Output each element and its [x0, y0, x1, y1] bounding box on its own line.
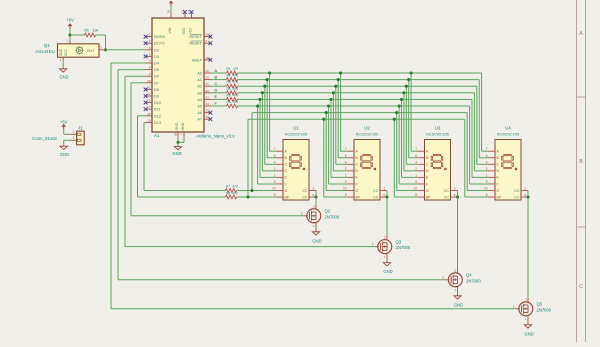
wire A2 pin to R3: [211, 85, 227, 87]
wire R7 to U1 pin G: [237, 190, 277, 192]
svg-text:9: 9: [415, 180, 417, 184]
junction CC net U4: [526, 196, 529, 199]
wire A5 pin to R6: [211, 105, 227, 107]
svg-text:A4: A4: [197, 98, 202, 102]
svg-text:CC: CC: [514, 196, 520, 200]
wire CC pins join U4: [527, 191, 529, 198]
pin 2 GND of Q1: [62, 57, 64, 60]
svg-text:470: 470: [233, 87, 239, 91]
wire bus E drop to U1: [259, 99, 261, 177]
pin 3 CC of U1: [302, 187, 316, 194]
svg-text:470: 470: [233, 93, 239, 97]
svg-text:A6: A6: [197, 111, 202, 115]
wire +5V to Q1 VCC: [69, 29, 71, 41]
wire net D7 to Q2 gate (vertical): [130, 83, 132, 216]
wire net D6 to Q3 gate (horiz run): [125, 246, 375, 248]
svg-text:4: 4: [486, 160, 488, 164]
wire bus C drop to U1: [264, 86, 266, 164]
svg-text:A2: A2: [197, 85, 202, 89]
wire into U1 pin E: [260, 176, 277, 178]
wire into U1 pin A: [270, 150, 277, 152]
svg-text:D12: D12: [154, 114, 161, 118]
wire bus B drop to U1: [266, 80, 268, 158]
pin 5 BP of U2: [345, 193, 361, 199]
junction Q1 OUT / D2 net: [104, 48, 107, 51]
pin 1 D0/RX of A1 (no connect): [144, 33, 166, 40]
svg-text:D1/TX: D1/TX: [154, 42, 165, 46]
wire net D7 to Q2 gate (horiz run): [131, 215, 304, 217]
display U1 KCSC02-105: [272, 126, 316, 200]
power +5V (Arduino VIN): [169, 1, 172, 6]
pin 7 A of U3: [415, 147, 429, 153]
resistor R5 470: [226, 93, 238, 101]
svg-text:GND: GND: [60, 152, 69, 157]
svg-text:D0/RX: D0/RX: [154, 35, 166, 39]
svg-text:Q4: Q4: [466, 273, 472, 278]
wire net D13 to R7 (vertical): [143, 122, 145, 190]
mcu A1 Arduino_Nano_v3.x: [144, 10, 236, 139]
svg-text:C: C: [215, 82, 218, 86]
wire into U4 pin A: [482, 150, 489, 152]
svg-text:24: 24: [206, 102, 210, 106]
svg-text:A7: A7: [197, 118, 202, 122]
svg-text:C: C: [579, 284, 583, 290]
svg-text:D10: D10: [154, 101, 161, 105]
wire R8 to U1 pin BP: [237, 196, 277, 198]
svg-text:CC: CC: [373, 196, 379, 200]
resistor R6 470: [226, 100, 238, 108]
svg-text:G: G: [356, 189, 359, 193]
resistor R5 10k: [84, 28, 98, 37]
junction BP bus at U2: [322, 118, 325, 121]
wire into U3 pin B: [409, 157, 418, 159]
svg-text:27: 27: [187, 10, 191, 14]
wire into U1 pin F: [258, 183, 277, 185]
wire segment B bus: [238, 79, 480, 81]
pin 14 D11 of A1 (no connect): [144, 105, 161, 112]
pin 3 CC of U4: [514, 187, 528, 194]
ground (J1): [60, 146, 69, 157]
wire net D12 to R8 (horiz run): [138, 196, 226, 198]
wire net D13 to R7 (horiz run): [144, 190, 226, 192]
pin 20 A1 of A1: [197, 76, 210, 83]
svg-text:KCSC02-105: KCSC02-105: [426, 133, 448, 137]
pin 9 F of U3: [415, 180, 428, 186]
wire bus D drop to U3: [403, 93, 405, 171]
svg-text:10: 10: [413, 187, 417, 191]
svg-text:D11: D11: [154, 108, 161, 112]
svg-text:+5V: +5V: [189, 27, 193, 34]
pin 18 AREF of A1 (no connect): [192, 56, 212, 63]
svg-text:4: 4: [274, 160, 276, 164]
pin 1 E of U3: [415, 173, 429, 179]
wire bus B drop to U4: [478, 80, 480, 158]
wire A1 GND to ground: [177, 142, 179, 146]
wire segment A bus: [238, 72, 482, 74]
svg-text:7: 7: [486, 147, 488, 151]
wire into U1 pin B: [267, 157, 276, 159]
node C (net label): [215, 82, 218, 86]
pin 7 A of U1: [274, 147, 288, 153]
wire Q1 OUT to Arduino D2: [106, 49, 146, 51]
svg-text:Q5: Q5: [537, 302, 543, 307]
pin 7 D4 of A1: [146, 59, 159, 66]
wire A1 GND pin29 down: [177, 137, 179, 143]
pin 2 of J1: [71, 133, 77, 135]
junction A bus at U1: [268, 71, 271, 74]
wire into U4 pin B: [479, 157, 488, 159]
transistor Q4 2N7000: [442, 269, 481, 296]
pin 23 A4 of A1: [197, 95, 210, 102]
wire bus BP drop to U4: [464, 119, 466, 197]
wire bus F drop to U1: [257, 106, 259, 184]
wire bus D drop to U2: [332, 93, 334, 171]
wire bus BP drop to U3: [393, 119, 395, 197]
svg-text:R5: R5: [84, 28, 89, 32]
wire into U2 pin BP: [324, 196, 348, 198]
junction C bus at U2: [334, 85, 337, 88]
7-segment glyph of U1: [290, 154, 305, 169]
wire into U3 pin A: [411, 150, 418, 152]
pin 6 D3 of A1 (no connect): [144, 52, 159, 59]
junction B bus at U1: [266, 78, 269, 81]
pin 1 S of Q3: [386, 253, 388, 262]
pin 19 A0 of A1: [197, 69, 210, 76]
svg-text:G: G: [285, 189, 288, 193]
wire bus C drop to U3: [405, 86, 407, 164]
svg-text:2: 2: [345, 167, 347, 171]
pin 3 D of Q2: [315, 205, 317, 209]
pin 8 CC of U4: [514, 193, 528, 200]
svg-text:D5: D5: [154, 68, 159, 72]
wire bus F drop to U2: [328, 106, 330, 184]
svg-text:2N7000: 2N7000: [396, 245, 411, 250]
resistor R1 470: [226, 67, 238, 75]
wire into U1 pin C: [265, 163, 277, 165]
wire into U3 pin D: [404, 170, 418, 172]
wire J1 pin 1 horizontal: [64, 139, 71, 141]
wire CC to Q3 drain: [386, 197, 388, 236]
svg-text:D: D: [215, 89, 218, 93]
ground (Q4): [454, 296, 463, 308]
7-segment glyph of U4: [502, 154, 517, 169]
junction F bus at U2: [327, 104, 330, 107]
svg-text:Q1: Q1: [44, 43, 51, 48]
connector J1 Conn_01x02: [32, 126, 84, 145]
svg-text:R5: R5: [226, 93, 230, 97]
pin 2 G of Q2: [304, 215, 308, 217]
pin 26 A7 of A1 (no connect): [197, 115, 212, 122]
svg-text:KCSC02-105: KCSC02-105: [356, 133, 378, 137]
wire segment G bus: [252, 112, 467, 114]
wire segment BP bus vertical: [247, 119, 249, 197]
svg-text:Q3: Q3: [396, 239, 402, 244]
pin 10 G of U3: [413, 187, 429, 193]
svg-text:U4: U4: [505, 126, 511, 131]
svg-text:GND: GND: [312, 238, 321, 243]
pin 17 3V3 of A1 (no connect): [184, 13, 186, 18]
svg-text:2N7000: 2N7000: [466, 278, 481, 283]
wire A1 pin to R2: [211, 79, 227, 81]
wire into U4 pin F: [470, 183, 489, 185]
pin 1 S of Q4: [457, 287, 459, 296]
svg-text:GND: GND: [454, 302, 463, 307]
pin 25 A6 of A1 (no connect): [197, 109, 212, 116]
wire bus A drop to U2: [340, 73, 342, 151]
pin 6 B of U4: [486, 154, 500, 160]
svg-text:2N7000: 2N7000: [537, 307, 552, 312]
wire into U1 pin D: [262, 170, 276, 172]
svg-text:7: 7: [345, 147, 347, 151]
svg-text:CC: CC: [444, 189, 450, 193]
wire A0 pin to R1: [211, 72, 227, 74]
pin 1 E of U2: [345, 173, 359, 179]
wire into U2 pin F: [329, 183, 348, 185]
svg-text:20: 20: [206, 76, 210, 80]
junction B bus at U2: [337, 78, 340, 81]
svg-text:D3: D3: [154, 55, 159, 59]
svg-text:KCSC02-105: KCSC02-105: [285, 133, 307, 137]
resistor R4 470: [226, 87, 238, 95]
svg-text:F: F: [285, 182, 287, 186]
pin 10 G of U4: [484, 187, 500, 193]
pin 2 G of Q4: [446, 279, 450, 281]
svg-text:RESET: RESET: [189, 42, 202, 46]
pin 8 CC of U3: [444, 193, 458, 200]
svg-text:R8: R8: [226, 192, 230, 196]
ground (Q2): [312, 232, 321, 244]
pin 4 GND of A1: [180, 122, 185, 137]
pin 1 E of U1: [274, 173, 288, 179]
svg-text:6: 6: [274, 154, 276, 158]
svg-text:CC: CC: [373, 189, 379, 193]
node D (net label): [215, 89, 218, 93]
svg-text:7: 7: [415, 147, 417, 151]
wire +5V node to R5: [70, 34, 85, 36]
wire bus BP drop to U2: [323, 119, 325, 197]
junction B bus at U3: [407, 78, 410, 81]
svg-text:22: 22: [206, 89, 210, 93]
7-segment glyph of U2: [361, 154, 376, 169]
svg-text:30: 30: [167, 10, 171, 14]
pin 1 S of Q2: [315, 223, 317, 232]
wire net D4 to Q5 gate (vertical): [110, 63, 112, 309]
wire into U3 pin BP: [394, 196, 418, 198]
pin 8 CC of U2: [373, 193, 387, 200]
svg-text:D7: D7: [154, 81, 159, 85]
wire bus D drop to U1: [261, 93, 263, 171]
svg-text:19: 19: [206, 69, 210, 73]
svg-text:A1: A1: [197, 78, 202, 82]
svg-text:J1: J1: [78, 126, 83, 131]
wire into U2 pin G: [326, 190, 347, 192]
wire bus A drop to U1: [269, 73, 271, 151]
svg-text:2: 2: [73, 130, 75, 134]
svg-text:GND: GND: [59, 48, 63, 56]
transistor Q5 2N7000: [513, 298, 552, 325]
svg-text:2: 2: [415, 167, 417, 171]
junction D bus at U2: [332, 91, 335, 94]
svg-text:OUT: OUT: [87, 49, 95, 53]
pin 1 VCC of Q1: [69, 41, 71, 44]
wire into U4 pin BP: [465, 196, 489, 198]
svg-text:11: 11: [147, 85, 150, 89]
wire net D6 to Q3 gate (vertical): [124, 76, 126, 246]
svg-text:13: 13: [147, 99, 151, 103]
svg-text:F: F: [497, 182, 499, 186]
pin 13 D10 of A1 (no connect): [144, 99, 161, 106]
svg-text:R2: R2: [226, 74, 230, 78]
wire bus B drop to U2: [337, 80, 339, 158]
display U2 KCSC02-105: [343, 126, 387, 200]
svg-text:+5V: +5V: [66, 17, 74, 22]
wire CC to Q5 drain: [527, 197, 529, 298]
svg-text:GND: GND: [59, 75, 68, 80]
transistor Q3 2N7000: [372, 235, 411, 262]
pin 15 D12 of A1: [146, 112, 161, 119]
svg-text:6: 6: [345, 154, 347, 158]
svg-text:D2: D2: [154, 48, 159, 52]
pin 6 B of U3: [415, 154, 429, 160]
wire net D6 to Q3 gate (horiz from pin): [125, 75, 146, 77]
wire into U2 pin A: [341, 150, 348, 152]
svg-text:D8: D8: [154, 88, 159, 92]
resistor R2 470: [226, 74, 238, 82]
wire bus E drop to U4: [471, 99, 473, 177]
wire bus C drop to U2: [335, 86, 337, 164]
junction E bus at U3: [400, 98, 403, 101]
svg-text:470: 470: [233, 100, 239, 104]
wire segment C bus: [238, 85, 477, 87]
junction A bus at U3: [410, 71, 413, 74]
node A (net label): [215, 69, 218, 73]
7-segment glyph of U3: [431, 154, 446, 169]
resistor R8 470: [226, 192, 238, 199]
svg-text:2: 2: [372, 243, 374, 247]
svg-text:470: 470: [232, 192, 238, 196]
svg-text:D9: D9: [154, 95, 159, 99]
pin 2 G of Q3: [375, 246, 379, 248]
power +5V (J1): [60, 119, 68, 129]
svg-text:5: 5: [274, 193, 276, 197]
svg-text:R4: R4: [226, 87, 230, 91]
svg-text:29: 29: [174, 133, 178, 137]
junction G bus at U2: [325, 111, 328, 114]
ground (Q5): [524, 325, 533, 337]
svg-text:U3: U3: [435, 126, 441, 131]
pin 30 VIN of A1: [170, 13, 172, 18]
pin 3 RESET of A1 (no connect): [189, 39, 212, 46]
svg-text:470: 470: [232, 184, 238, 188]
svg-text:GND: GND: [181, 122, 185, 130]
svg-text:1: 1: [73, 136, 75, 140]
svg-text:10: 10: [272, 187, 276, 191]
pin 4 C of U2: [345, 160, 359, 166]
pin 3 CC of U2: [373, 187, 387, 194]
wire into U4 pin G: [467, 190, 488, 192]
junction E bus at U1: [258, 98, 261, 101]
pin 6 B of U1: [274, 154, 288, 160]
pin 2 D1/TX of A1 (no connect): [144, 39, 166, 46]
junction E bus at U2: [329, 98, 332, 101]
pin 3 CC of U3: [444, 187, 458, 194]
wire +5V to J1 pin 2: [63, 129, 65, 134]
wire A1 GND join: [178, 141, 184, 143]
svg-text:F: F: [356, 182, 358, 186]
pin 27 +5V of A1 (no connect): [191, 13, 193, 18]
wire bus G drop to U4: [466, 113, 468, 191]
pin 24 A5 of A1: [197, 102, 210, 109]
svg-text:5: 5: [486, 193, 488, 197]
pin 7 A of U4: [486, 147, 500, 153]
wire bus G drop to U2: [325, 113, 327, 191]
junction CC net U2: [385, 196, 388, 199]
pin 2 G of Q5: [516, 308, 520, 310]
svg-text:CC: CC: [302, 189, 308, 193]
wire segment F bus: [238, 105, 470, 107]
transistor Q2 2N7000: [301, 205, 340, 232]
wire CC pins join U1: [315, 191, 317, 198]
svg-text:VIN: VIN: [168, 27, 172, 33]
wire down to Q1 OUT net: [105, 35, 107, 50]
wire into U3 pin C: [406, 163, 418, 165]
display U3 KCSC02-105: [413, 126, 457, 200]
pin 4 C of U4: [486, 160, 500, 166]
pin 9 F of U4: [486, 180, 499, 186]
wire bus F drop to U3: [398, 106, 400, 184]
wire net D5 to Q4 gate (vertical): [117, 70, 119, 280]
svg-text:R1: R1: [226, 67, 230, 71]
pin 5 D2 of A1: [146, 46, 159, 53]
pin 8 CC of U1: [302, 193, 316, 200]
wire A4 pin to R5: [211, 98, 227, 100]
svg-text:6: 6: [415, 154, 417, 158]
svg-text:23: 23: [206, 95, 210, 99]
resistor R7 470: [226, 184, 238, 192]
svg-text:R3: R3: [226, 80, 230, 84]
svg-text:6: 6: [486, 154, 488, 158]
svg-text:12: 12: [147, 92, 151, 96]
wire net D5 to Q4 gate (horiz from pin): [118, 69, 146, 71]
svg-text:5: 5: [345, 193, 347, 197]
pin 12 D9 of A1 (no connect): [144, 92, 159, 99]
svg-text:21: 21: [206, 82, 210, 86]
pin 22 A3 of A1: [197, 89, 210, 96]
wire bus B drop to U3: [408, 80, 410, 158]
svg-text:1: 1: [415, 173, 417, 177]
junction CC net U3: [456, 196, 459, 199]
pin 29 GND of A1: [174, 122, 179, 137]
svg-text:KCSC02-105: KCSC02-105: [497, 133, 519, 137]
svg-text:A3: A3: [197, 91, 202, 95]
svg-text:U2: U2: [364, 126, 370, 131]
svg-text:10: 10: [343, 187, 347, 191]
wire net D5 to Q4 gate (horiz run): [118, 279, 446, 281]
svg-text:2: 2: [486, 167, 488, 171]
svg-text:9: 9: [345, 180, 347, 184]
junction F bus at U3: [398, 104, 401, 107]
wire bus A drop to U3: [410, 73, 412, 151]
svg-text:A5: A5: [197, 105, 202, 109]
svg-text:RESET: RESET: [189, 35, 202, 39]
node E (net label): [215, 95, 218, 99]
wire into U4 pin E: [472, 176, 489, 178]
svg-text:+5V: +5V: [60, 119, 68, 124]
svg-text:2: 2: [274, 167, 276, 171]
wire into U4 pin C: [477, 163, 489, 165]
svg-text:10: 10: [147, 79, 151, 83]
svg-text:10k: 10k: [93, 28, 99, 32]
